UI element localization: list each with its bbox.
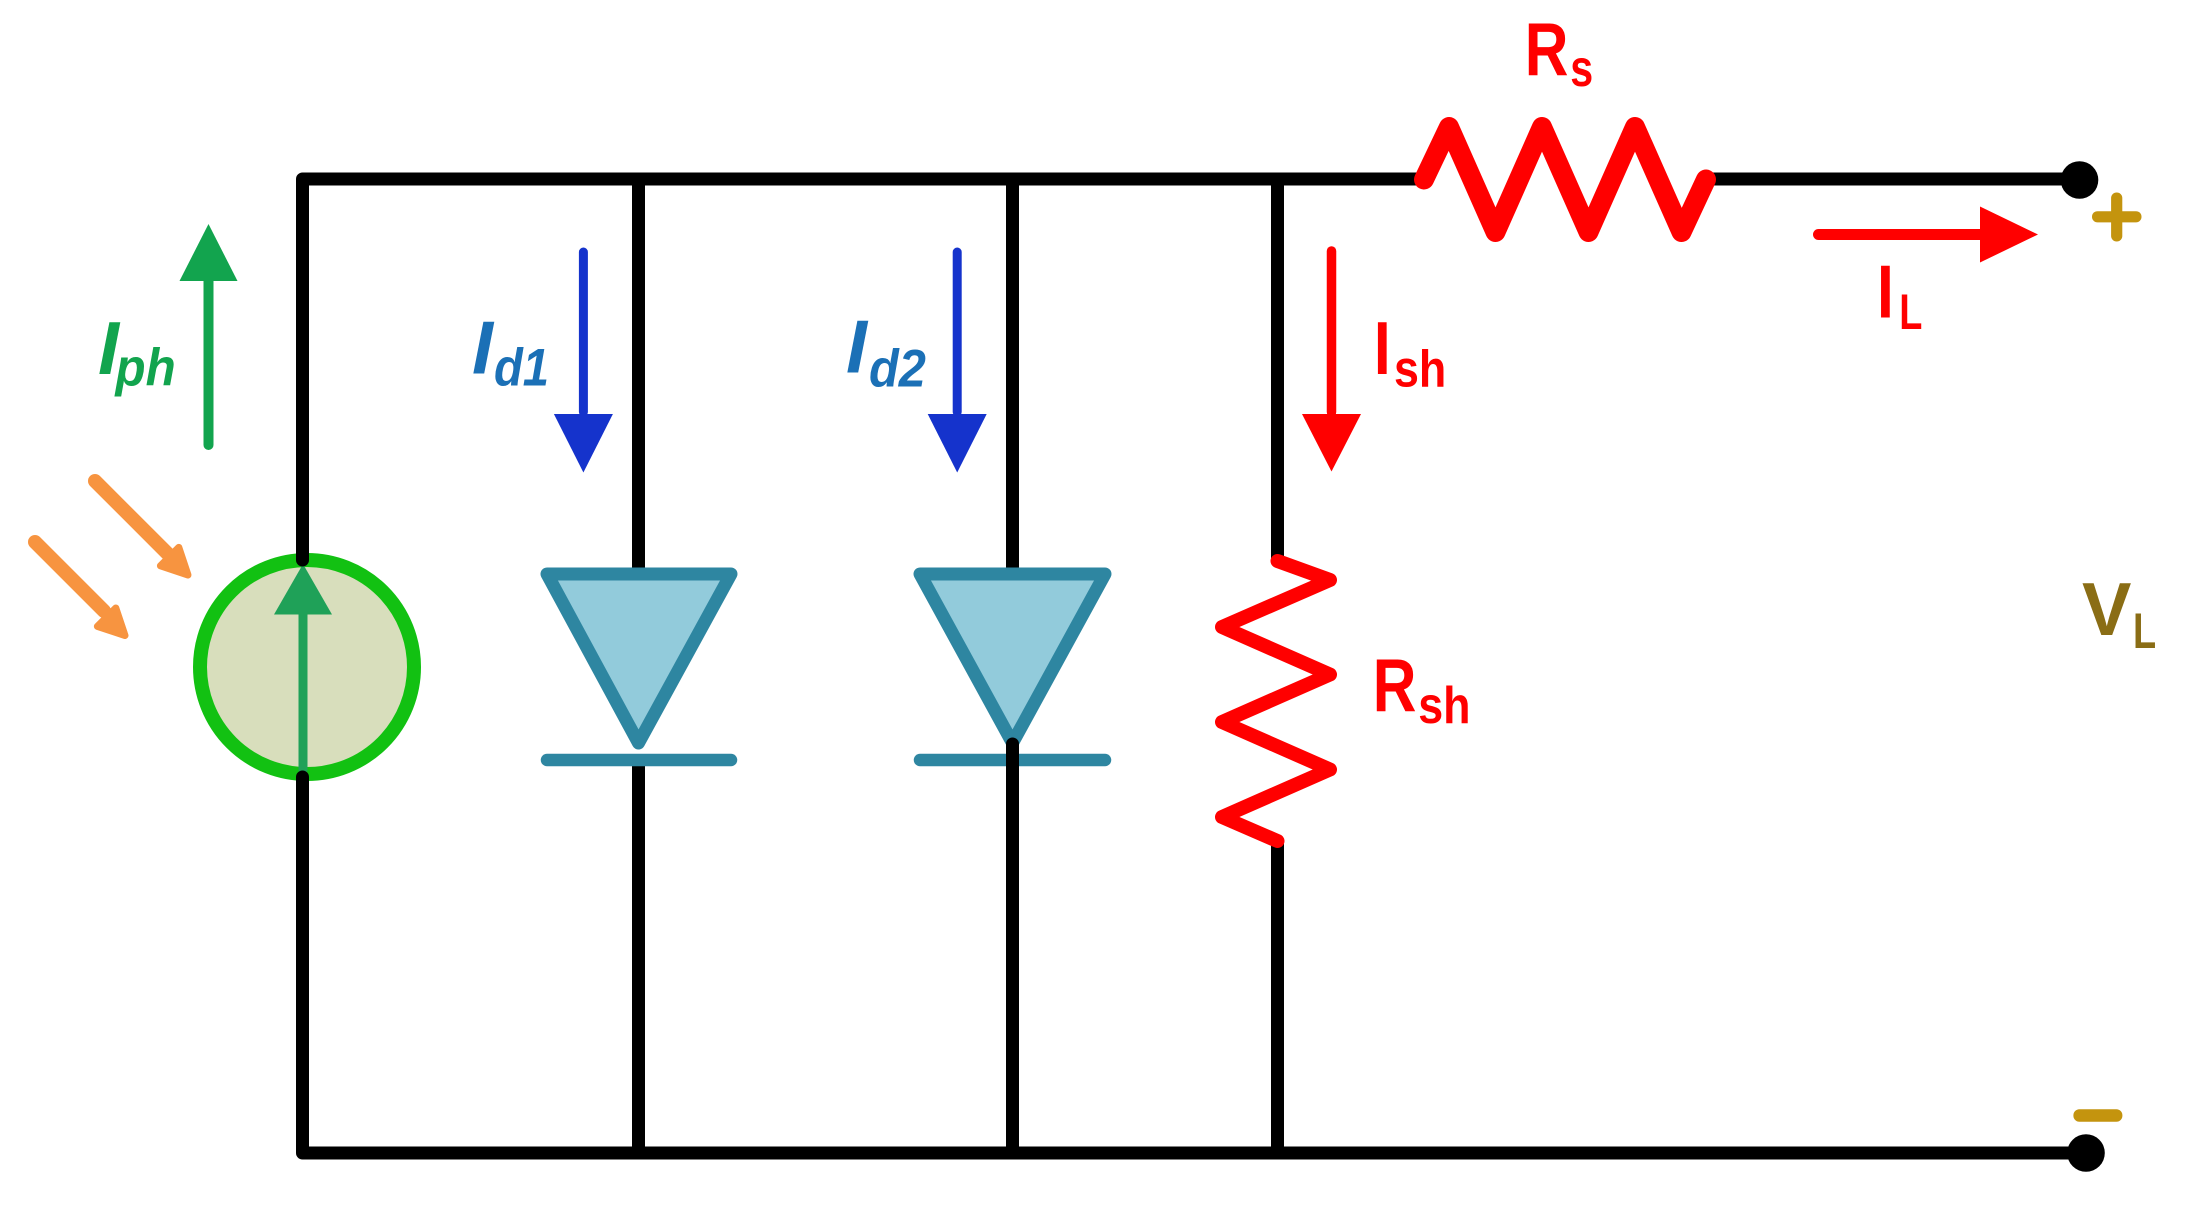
svg-text:sh: sh xyxy=(1418,677,1470,735)
svg-text:L: L xyxy=(2133,604,2156,659)
svg-text:I: I xyxy=(1374,306,1391,391)
arrow Ish (red, down) xyxy=(1302,251,1361,472)
label IL xyxy=(1877,249,1922,340)
svg-text:d1: d1 xyxy=(494,338,549,397)
wire Rsh branch upper xyxy=(1271,173,1284,559)
arrow Iph (green, up) xyxy=(180,224,238,445)
sun ray arrow 1 (orange) xyxy=(95,481,188,575)
wire diode2 branch upper xyxy=(1006,173,1019,568)
plus terminal sign xyxy=(2092,193,2142,242)
svg-text:I: I xyxy=(472,306,495,390)
wire diode1 branch upper xyxy=(632,173,645,570)
wire Rs to + terminal xyxy=(1706,173,2079,186)
svg-text:L: L xyxy=(1899,285,1922,340)
svg-text:I: I xyxy=(846,306,869,390)
wire Rsh branch lower xyxy=(1271,843,1284,1153)
svg-text:R: R xyxy=(1373,642,1417,727)
wire diode1 branch lower xyxy=(632,764,645,1153)
diode D2 xyxy=(920,574,1105,812)
sun ray arrow 2 (orange) xyxy=(35,542,125,636)
label Id1 xyxy=(472,306,549,397)
label VL xyxy=(2082,566,2156,659)
diode D1 xyxy=(547,574,731,760)
svg-text:d2: d2 xyxy=(869,339,926,398)
minus terminal sign xyxy=(2073,1109,2122,1122)
label Rs xyxy=(1525,6,1593,97)
label Id2 xyxy=(846,306,926,398)
arrow IL (red, right) xyxy=(1819,207,2039,263)
svg-text:ph: ph xyxy=(114,338,176,397)
node - terminal dot xyxy=(2067,1134,2105,1172)
svg-text:I: I xyxy=(1877,249,1894,334)
wire diode2 branch lower xyxy=(1006,746,1019,1153)
current source Iph (circle body) xyxy=(200,560,414,774)
svg-text:sh: sh xyxy=(1394,341,1446,399)
wire bottom rail + left rail lower xyxy=(303,777,2087,1153)
label Rsh xyxy=(1373,642,1471,734)
label Ish xyxy=(1374,306,1446,399)
resistor Rsh (shunt, vertical zigzag) xyxy=(1222,561,1330,841)
svg-text:s: s xyxy=(1570,40,1593,97)
svg-text:V: V xyxy=(2082,566,2131,651)
label Iph xyxy=(98,307,176,397)
current source internal arrow xyxy=(274,564,332,770)
arrow Id2 (blue, down) xyxy=(928,252,987,473)
resistor Rs (series, horizontal zigzag) xyxy=(1424,127,1706,232)
arrow Id1 (blue, down) xyxy=(554,252,613,473)
wire top-left L (left rail upper + top rail to Rs) xyxy=(303,179,1425,560)
svg-text:R: R xyxy=(1525,6,1569,91)
node + terminal dot xyxy=(2061,161,2099,199)
